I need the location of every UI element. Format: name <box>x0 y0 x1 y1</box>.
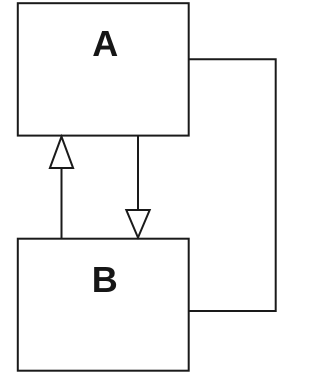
box B <box>18 239 189 371</box>
wire: generalization stem from B top to triangle base <box>61 168 63 239</box>
svg-text:A: A <box>92 23 118 64</box>
arrowhead: hollow triangle pointing down at B <box>126 210 149 238</box>
wire: dependency stem from A bottom to triangle top <box>137 136 139 210</box>
arrowhead: hollow triangle pointing up at A <box>50 137 73 168</box>
svg-text:B: B <box>92 259 118 300</box>
wire: right-side association loop from A right edge to B right edge <box>189 59 276 311</box>
box A <box>18 3 189 135</box>
